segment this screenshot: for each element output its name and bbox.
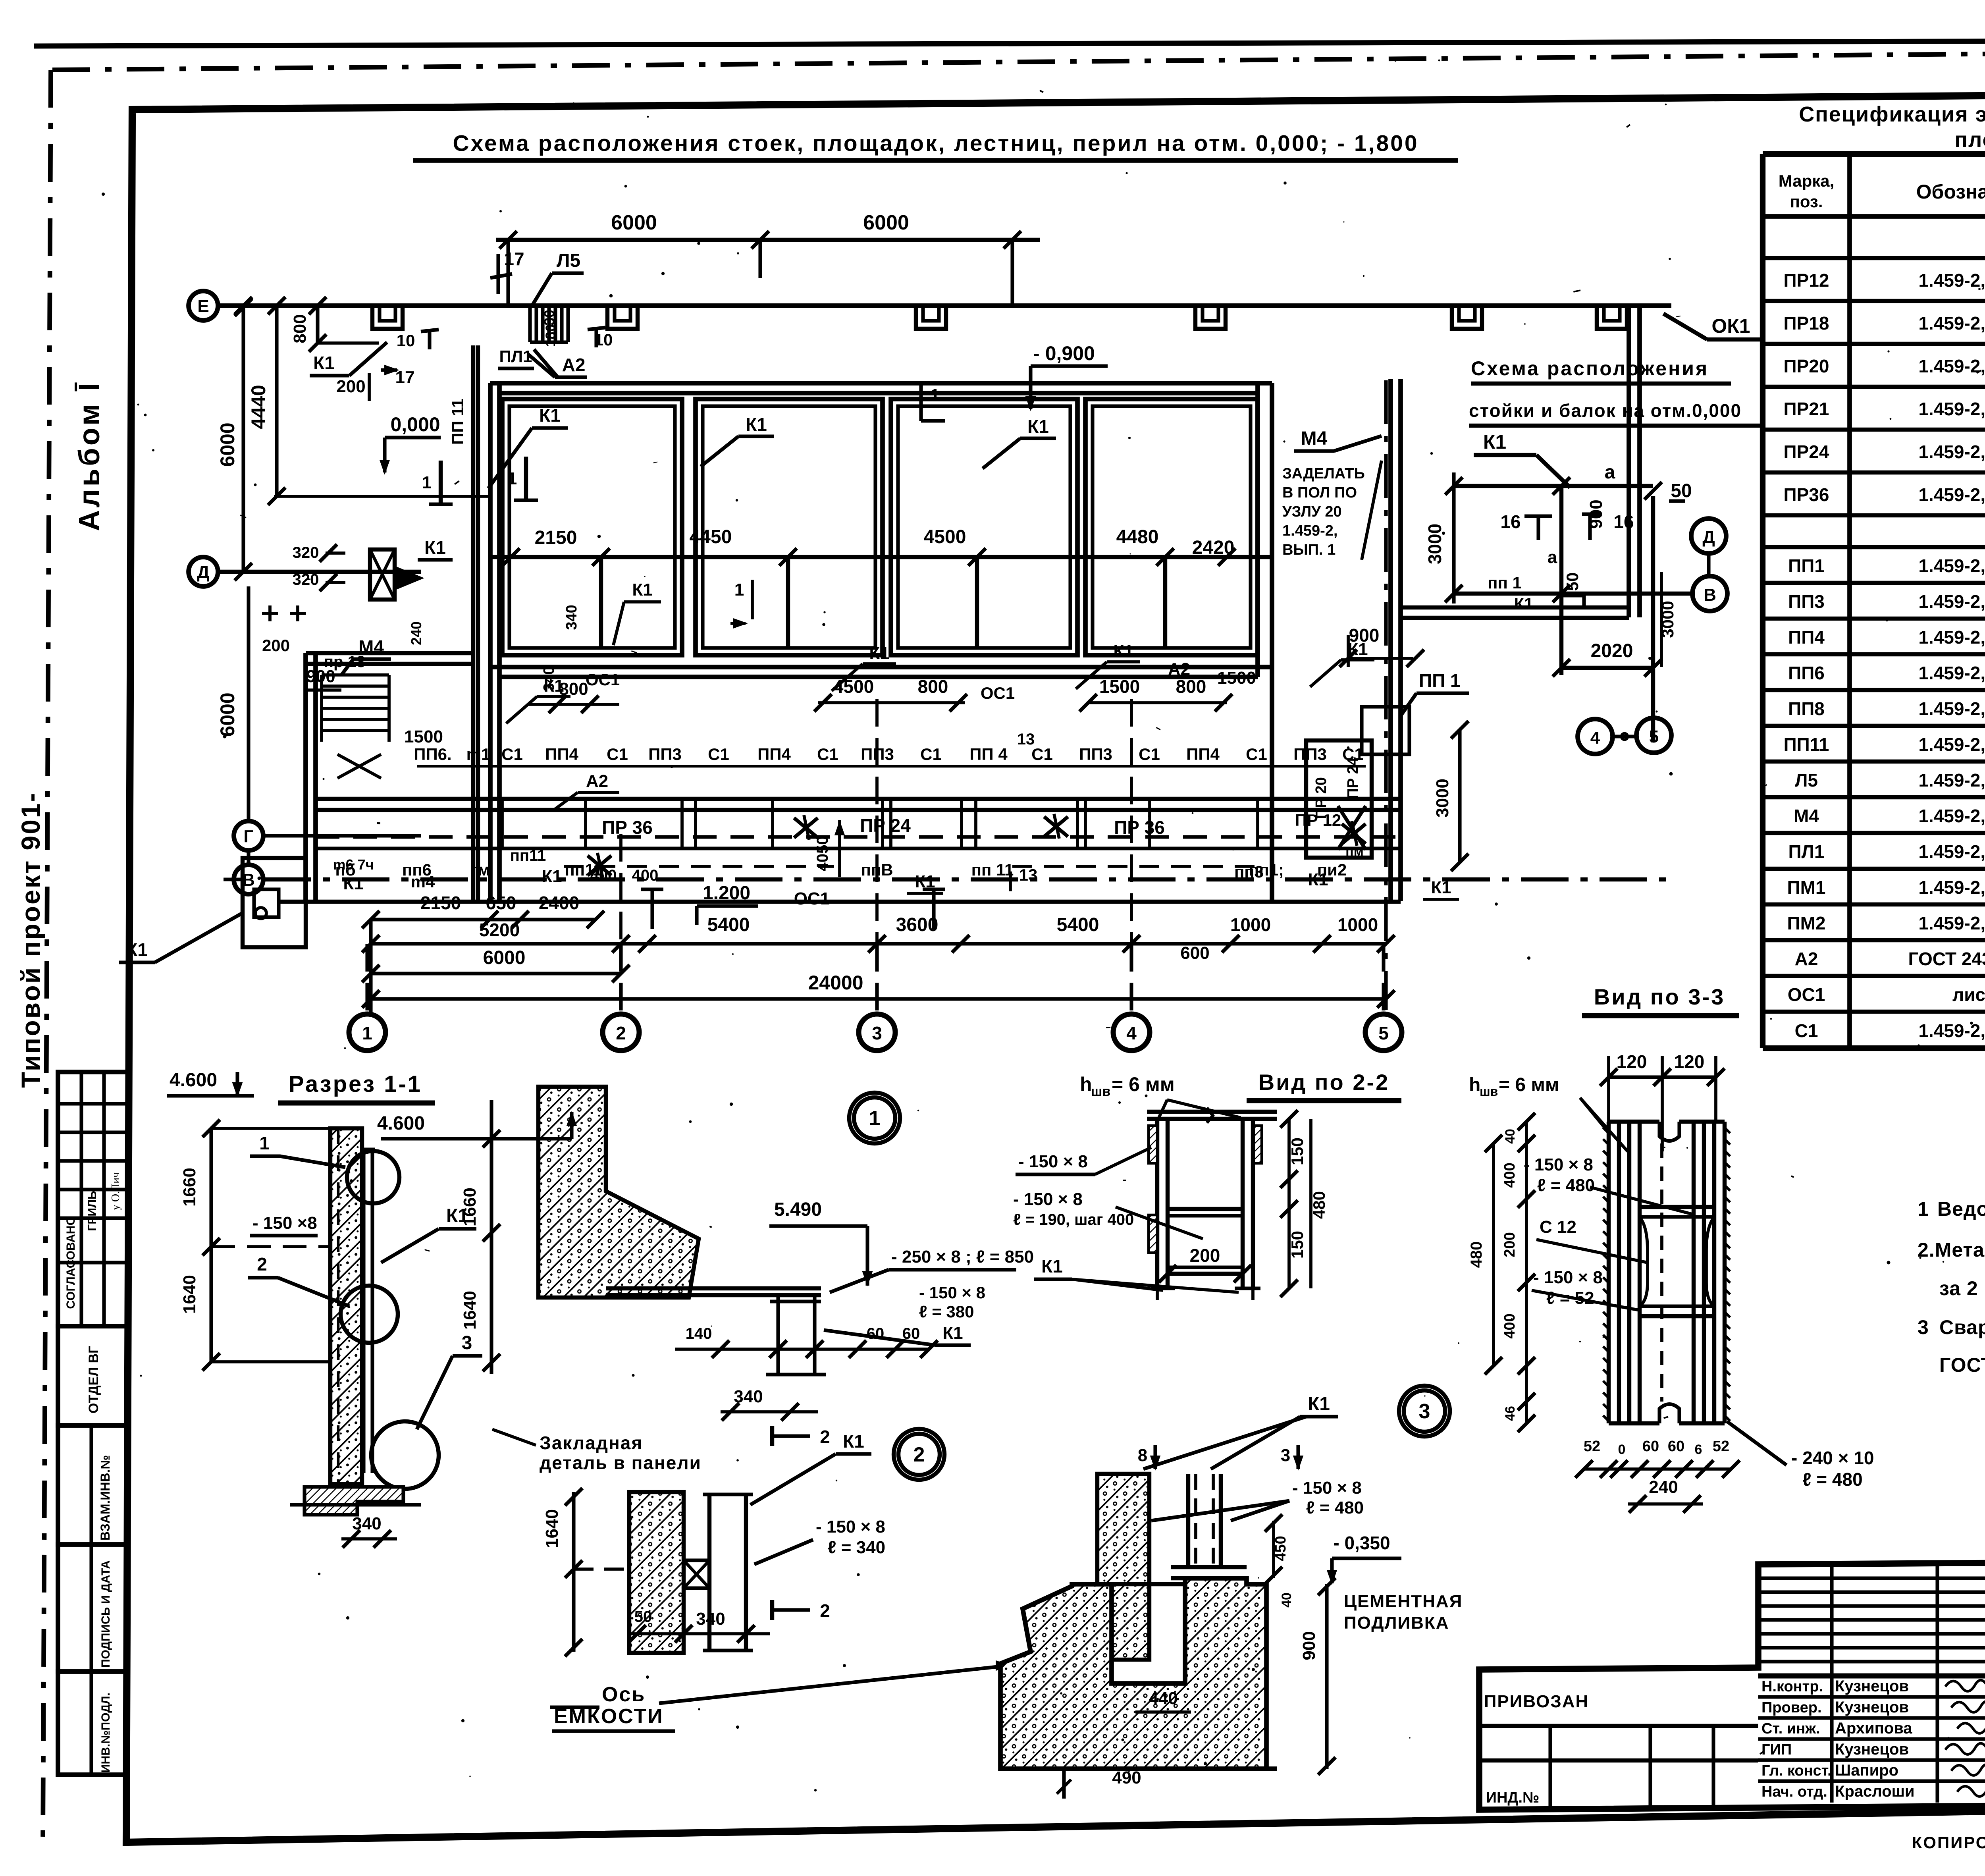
svg-text:ПОДПИСЬ И ДАТА: ПОДПИСЬ И ДАТА xyxy=(99,1560,112,1668)
svg-text:1.459-2, вып.2: 1.459-2, вып.2 xyxy=(1918,627,1985,648)
svg-text:ПП3: ПП3 xyxy=(1788,591,1825,612)
svg-text:ПП 11: ПП 11 xyxy=(448,399,467,445)
svg-text:1500: 1500 xyxy=(1217,668,1256,688)
svg-text:Схема расположения стоек, пл: Схема расположения стоек, площадок, лест… xyxy=(453,131,1418,156)
svg-text:40: 40 xyxy=(1279,1593,1294,1608)
svg-text:240: 240 xyxy=(408,621,424,645)
svg-text:480: 480 xyxy=(1310,1191,1328,1219)
svg-text:Сварку производить электр: Сварку производить электродами Э - 42 xyxy=(1939,1316,1985,1338)
svg-text:16: 16 xyxy=(1500,511,1521,532)
svg-text:120: 120 xyxy=(1617,1051,1647,1072)
svg-text:К1: К1 xyxy=(1308,870,1328,889)
svg-text:4500: 4500 xyxy=(833,676,874,697)
svg-text:ПЛ1: ПЛ1 xyxy=(1788,841,1825,862)
svg-text:ГОСТ 9467 - 75 , высота ш: ГОСТ 9467 - 75 , высота шва 6 мм. xyxy=(1939,1354,1985,1376)
svg-text:1000: 1000 xyxy=(1337,914,1378,935)
svg-text:2: 2 xyxy=(257,1254,267,1274)
svg-text:50: 50 xyxy=(634,1608,652,1625)
svg-text:ОК1: ОК1 xyxy=(1711,315,1750,337)
svg-text:ПП11: ПП11 xyxy=(1784,734,1829,755)
svg-text:1.459-2, вып.2: 1.459-2, вып.2 xyxy=(1918,806,1985,826)
svg-text:3: 3 xyxy=(1281,1446,1290,1465)
svg-text:4: 4 xyxy=(1126,1023,1137,1043)
svg-text:С 12: С 12 xyxy=(1540,1217,1576,1237)
svg-text:2400: 2400 xyxy=(539,893,579,913)
svg-text:Краслоши: Краслоши xyxy=(1835,1783,1915,1800)
svg-text:- 0,350: - 0,350 xyxy=(1333,1533,1390,1553)
svg-text:ОС1: ОС1 xyxy=(794,889,830,908)
svg-text:- 150 × 8: - 150 × 8 xyxy=(919,1283,985,1302)
svg-text:8: 8 xyxy=(1138,1446,1147,1465)
svg-text:5400: 5400 xyxy=(707,914,750,935)
svg-text:1.459-2, вып.1: 1.459-2, вып.1 xyxy=(1918,442,1985,462)
svg-text:50: 50 xyxy=(1671,480,1692,501)
svg-text:ПР 36: ПР 36 xyxy=(602,817,653,838)
svg-text:пп 1: пп 1 xyxy=(1488,573,1522,592)
svg-text:Л5: Л5 xyxy=(1795,770,1818,791)
svg-text:ПР36: ПР36 xyxy=(1784,484,1829,505)
svg-text:- 150 × 8: - 150 × 8 xyxy=(1018,1152,1088,1171)
svg-text:ПП6.: ПП6. xyxy=(414,745,451,764)
svg-text:h: h xyxy=(1080,1073,1092,1095)
svg-text:лист 7: лист 7 xyxy=(1952,984,1985,1005)
svg-text:2: 2 xyxy=(616,1023,626,1043)
svg-text:1: 1 xyxy=(362,1023,372,1043)
svg-text:Схема расположения: Схема расположения xyxy=(1471,357,1709,380)
svg-text:Альбом Ī: Альбом Ī xyxy=(73,380,106,531)
svg-text:0,000: 0,000 xyxy=(390,413,440,436)
svg-text:52: 52 xyxy=(1584,1438,1600,1455)
svg-text:1.459-2, вып.2: 1.459-2, вып.2 xyxy=(1918,555,1985,576)
svg-text:1: 1 xyxy=(734,580,744,600)
svg-text:800: 800 xyxy=(918,676,948,697)
svg-text:пм: пм xyxy=(1345,844,1364,859)
svg-text:17: 17 xyxy=(395,368,415,387)
svg-text:К1: К1 xyxy=(539,405,561,426)
svg-text:1.459-2, вып.2: 1.459-2, вып.2 xyxy=(1918,734,1985,755)
svg-text:a: a xyxy=(1605,462,1615,483)
svg-text:3: 3 xyxy=(1918,1316,1929,1338)
svg-text:2150: 2150 xyxy=(420,893,461,913)
svg-text:4: 4 xyxy=(1590,728,1600,748)
svg-text:400: 400 xyxy=(590,867,617,884)
svg-text:ПР20: ПР20 xyxy=(1784,356,1829,376)
svg-text:ОС1: ОС1 xyxy=(1788,984,1825,1005)
svg-text:Разрез 1-1: Разрез 1-1 xyxy=(289,1071,422,1097)
svg-text:ПМ2: ПМ2 xyxy=(1787,913,1826,933)
svg-text:К1: К1 xyxy=(424,537,446,558)
svg-text:- 150 × 8: - 150 × 8 xyxy=(816,1517,885,1537)
svg-text:К1: К1 xyxy=(343,874,363,893)
svg-text:= 6 мм: = 6 мм xyxy=(1499,1074,1559,1095)
svg-text:340: 340 xyxy=(352,1514,381,1533)
svg-text:С1: С1 xyxy=(708,745,729,764)
svg-text:4.600: 4.600 xyxy=(377,1113,425,1134)
svg-text:1.459-2, вып.1: 1.459-2, вып.1 xyxy=(1918,1020,1985,1041)
svg-text:5200: 5200 xyxy=(479,920,520,940)
svg-text:ПР 24: ПР 24 xyxy=(1345,757,1361,799)
svg-text:ПП3: ПП3 xyxy=(1293,745,1327,764)
svg-text:200: 200 xyxy=(1501,1232,1518,1257)
svg-text:гм: гм xyxy=(471,860,490,879)
svg-text:5: 5 xyxy=(1649,727,1659,746)
svg-text:ПП4: ПП4 xyxy=(1186,745,1220,764)
svg-text:140: 140 xyxy=(686,1325,712,1342)
svg-text:2150: 2150 xyxy=(535,527,577,548)
svg-text:ПР24: ПР24 xyxy=(1784,442,1829,462)
svg-text:- 150 × 8: - 150 × 8 xyxy=(1292,1478,1362,1498)
svg-text:60: 60 xyxy=(1642,1438,1659,1455)
svg-text:200: 200 xyxy=(336,377,365,396)
svg-text:К1: К1 xyxy=(1113,642,1133,661)
svg-text:1.459-2, вып.2: 1.459-2, вып.2 xyxy=(1918,877,1985,898)
svg-text:150: 150 xyxy=(1288,1231,1307,1259)
svg-text:ПП3: ПП3 xyxy=(648,745,682,764)
svg-text:1.459-2, вып.2: 1.459-2, вып.2 xyxy=(1918,698,1985,719)
svg-text:К1: К1 xyxy=(1431,878,1451,897)
svg-text:В: В xyxy=(1704,585,1716,605)
svg-text:К1: К1 xyxy=(1027,416,1049,437)
svg-text:6000: 6000 xyxy=(483,947,526,968)
svg-text:1.459-2,: 1.459-2, xyxy=(1282,523,1337,539)
svg-text:Обозначение: Обозначение xyxy=(1916,181,1985,203)
svg-text:4450: 4450 xyxy=(690,526,732,548)
svg-text:Кузнецов: Кузнецов xyxy=(1835,1699,1909,1716)
svg-text:у О.Лич: у О.Лич xyxy=(110,1172,122,1210)
svg-text:ПР 36: ПР 36 xyxy=(1114,817,1165,838)
svg-text:1.459-2, вып.2: 1.459-2, вып.2 xyxy=(1918,841,1985,862)
svg-text:В ПОЛ ПО: В ПОЛ ПО xyxy=(1282,484,1357,501)
svg-text:Вид по 2-2: Вид по 2-2 xyxy=(1258,1070,1390,1095)
svg-text:900: 900 xyxy=(1299,1631,1319,1660)
svg-text:ПП 4: ПП 4 xyxy=(969,745,1008,764)
svg-text:С1: С1 xyxy=(817,745,838,764)
svg-text:- 250 × 8 ; ℓ = 850: - 250 × 8 ; ℓ = 850 xyxy=(891,1247,1034,1267)
svg-text:Вид по 3-3: Вид по 3-3 xyxy=(1594,984,1725,1009)
svg-text:1500: 1500 xyxy=(404,727,443,746)
svg-text:60: 60 xyxy=(902,1325,920,1342)
svg-text:ПЛ1: ПЛ1 xyxy=(499,347,532,366)
svg-text:1660: 1660 xyxy=(460,1188,480,1226)
svg-text:200: 200 xyxy=(262,636,290,655)
svg-text:ПР21: ПР21 xyxy=(1784,399,1829,419)
svg-text:К1: К1 xyxy=(869,644,889,663)
svg-text:Типовой проект 901-: Типовой проект 901- xyxy=(16,792,45,1088)
svg-text:3000: 3000 xyxy=(1433,779,1452,817)
svg-text:ЗАДЕЛАТЬ: ЗАДЕЛАТЬ xyxy=(1282,465,1365,482)
svg-text:С1: С1 xyxy=(1795,1020,1818,1041)
svg-text:17: 17 xyxy=(504,249,524,269)
svg-text:3: 3 xyxy=(462,1332,472,1353)
svg-text:3600: 3600 xyxy=(896,914,939,935)
svg-text:1640: 1640 xyxy=(180,1275,199,1314)
svg-text:52: 52 xyxy=(1713,1438,1729,1455)
svg-text:М4: М4 xyxy=(1794,806,1819,826)
svg-text:Марка,: Марка, xyxy=(1779,172,1835,190)
svg-text:2020: 2020 xyxy=(1591,640,1633,661)
svg-text:поз.: поз. xyxy=(1790,192,1823,211)
svg-text:440: 440 xyxy=(1149,1689,1178,1708)
svg-text:600: 600 xyxy=(1180,943,1209,963)
svg-text:30: 30 xyxy=(541,310,557,326)
svg-text:ИНВ.№ПОДЛ.: ИНВ.№ПОДЛ. xyxy=(99,1693,112,1773)
svg-text:Е: Е xyxy=(197,297,209,316)
svg-text:Н.контр.: Н.контр. xyxy=(1761,1678,1823,1695)
svg-text:1500: 1500 xyxy=(1099,676,1140,697)
svg-text:h: h xyxy=(1469,1074,1480,1095)
svg-text:за 2 раза ( ГОСТ 695 -77): за 2 раза ( ГОСТ 695 -77) по огрунтовке. xyxy=(1939,1277,1985,1300)
svg-text:400: 400 xyxy=(1501,1163,1518,1188)
svg-text:ПРИВОЗАН: ПРИВОЗАН xyxy=(1484,1692,1589,1711)
svg-text:- 0,900: - 0,900 xyxy=(1033,342,1095,364)
svg-text:1000: 1000 xyxy=(1230,914,1271,935)
svg-text:пп11: пп11 xyxy=(510,847,546,864)
svg-text:Кузнецов: Кузнецов xyxy=(1835,1677,1909,1695)
svg-text:480: 480 xyxy=(1468,1242,1485,1268)
svg-text:ВЫП. 1: ВЫП. 1 xyxy=(1282,542,1336,558)
svg-text:800: 800 xyxy=(1176,676,1206,697)
svg-text:ПП3: ПП3 xyxy=(1079,745,1112,764)
svg-text:А2: А2 xyxy=(562,355,586,375)
svg-text:Шапиро: Шапиро xyxy=(1835,1762,1898,1779)
svg-text:ПР 20: ПР 20 xyxy=(1313,777,1330,819)
svg-text:4480: 4480 xyxy=(1116,526,1159,548)
svg-text:М4: М4 xyxy=(1301,428,1328,449)
svg-text:180: 180 xyxy=(543,324,558,347)
svg-text:Ст. инж.: Ст. инж. xyxy=(1761,1720,1820,1737)
svg-text:ПМ1: ПМ1 xyxy=(1787,877,1826,898)
svg-text:ℓ = 340: ℓ = 340 xyxy=(828,1538,885,1557)
svg-text:КОПИРОВАЛ ЕРЕМЕНКО: КОПИРОВАЛ ЕРЕМЕНКО xyxy=(1912,1833,1985,1852)
svg-text:ГРИЛЬ: ГРИЛЬ xyxy=(86,1191,99,1231)
svg-text:СОГЛАСОВАНО: СОГЛАСОВАНО xyxy=(64,1216,77,1309)
svg-text:ПП 1: ПП 1 xyxy=(1419,670,1461,691)
svg-text:А2: А2 xyxy=(1795,949,1818,969)
svg-text:ЦЕМЕНТНАЯ: ЦЕМЕНТНАЯ xyxy=(1344,1592,1463,1611)
svg-text:340: 340 xyxy=(541,666,557,691)
svg-text:ПР18: ПР18 xyxy=(1784,313,1829,334)
svg-text:ПП8: ПП8 xyxy=(1788,698,1825,719)
svg-text:2: 2 xyxy=(913,1443,925,1466)
svg-text:шв: шв xyxy=(1091,1084,1110,1099)
svg-text:стойки и балок на отм.0,00: стойки и балок на отм.0,000 xyxy=(1469,400,1742,421)
svg-text:ВЗАМ.ИНВ.№: ВЗАМ.ИНВ.№ xyxy=(98,1455,112,1541)
svg-text:К1: К1 xyxy=(942,1323,963,1343)
svg-text:6000: 6000 xyxy=(216,692,239,737)
svg-text:ГОСТ 24379.1-80: ГОСТ 24379.1-80 xyxy=(1908,949,1985,969)
svg-text:13: 13 xyxy=(1017,731,1035,748)
svg-text:ПР 24: ПР 24 xyxy=(860,815,911,836)
svg-text:С1: С1 xyxy=(501,745,523,764)
svg-text:1: 1 xyxy=(507,469,517,488)
svg-text:С1: С1 xyxy=(920,745,942,764)
svg-text:С1: С1 xyxy=(1139,745,1160,764)
svg-text:4.600: 4.600 xyxy=(170,1070,217,1091)
svg-text:Архипова: Архипова xyxy=(1835,1720,1912,1737)
svg-text:4050: 4050 xyxy=(814,836,831,871)
svg-text:ПОДЛИВКА: ПОДЛИВКА xyxy=(1344,1613,1449,1633)
svg-text:К1: К1 xyxy=(746,414,767,435)
svg-text:Д: Д xyxy=(1702,528,1715,547)
svg-text:1640: 1640 xyxy=(460,1291,480,1330)
svg-text:2.Металлоконструкции покраси: 2.Металлоконструкции покрасить масляной … xyxy=(1918,1239,1985,1261)
svg-text:ПП6: ПП6 xyxy=(1788,663,1825,683)
svg-text:ℓ = 480: ℓ = 480 xyxy=(1537,1176,1595,1195)
svg-text:К1: К1 xyxy=(126,939,148,960)
svg-text:С1: С1 xyxy=(607,745,628,764)
svg-text:Ось: Ось xyxy=(602,1683,646,1706)
svg-text:1.459-2, вып.2: 1.459-2, вып.2 xyxy=(1918,770,1985,791)
svg-text:пп 11: пп 11 xyxy=(971,860,1014,879)
svg-text:m1: m1 xyxy=(466,745,491,764)
svg-text:А2: А2 xyxy=(1168,659,1190,679)
svg-text:ОС1: ОС1 xyxy=(981,684,1015,702)
svg-text:ℓ = 190, шаг 400: ℓ = 190, шаг 400 xyxy=(1013,1211,1134,1228)
svg-text:К1: К1 xyxy=(542,867,562,886)
svg-text:- 150 × 8: - 150 × 8 xyxy=(1533,1268,1603,1287)
svg-text:1.459-2, вып.1: 1.459-2, вып.1 xyxy=(1918,356,1985,376)
svg-text:Закладная: Закладная xyxy=(540,1433,643,1453)
svg-text:ℓ = 480: ℓ = 480 xyxy=(1802,1469,1863,1490)
svg-text:120: 120 xyxy=(1674,1051,1705,1072)
svg-text:УЗЛУ 20: УЗЛУ 20 xyxy=(1282,503,1342,520)
svg-text:ОС1: ОС1 xyxy=(586,670,620,689)
svg-text:пп3: пп3 xyxy=(1234,862,1264,881)
svg-text:1.459-2, вып.1: 1.459-2, вып.1 xyxy=(1918,484,1985,505)
svg-text:3: 3 xyxy=(1419,1400,1430,1423)
svg-text:900: 900 xyxy=(1586,499,1606,528)
svg-text:4440: 4440 xyxy=(247,385,270,429)
svg-text:6: 6 xyxy=(1695,1442,1702,1457)
svg-text:900: 900 xyxy=(1349,625,1380,646)
svg-text:= 6 мм: = 6 мм xyxy=(1112,1073,1175,1095)
svg-text:Г: Г xyxy=(244,827,254,846)
svg-text:Ведомость элементов см. на: Ведомость элементов см. на листе КМ-7. xyxy=(1937,1198,1985,1220)
svg-text:5400: 5400 xyxy=(1057,914,1099,935)
svg-text:60: 60 xyxy=(867,1325,885,1342)
svg-text:2: 2 xyxy=(820,1427,830,1447)
svg-text:1: 1 xyxy=(930,386,940,405)
svg-text:Л5: Л5 xyxy=(557,250,580,271)
svg-text:m4: m4 xyxy=(411,872,435,891)
svg-text:- 240 × 10: - 240 × 10 xyxy=(1791,1448,1874,1468)
svg-text:1.459-2, вып.1: 1.459-2, вып.1 xyxy=(1918,313,1985,334)
svg-text:площадок, лестниц , перил.: площадок, лестниц , перил. xyxy=(1954,128,1985,152)
svg-text:ПП4: ПП4 xyxy=(757,745,791,764)
svg-text:400: 400 xyxy=(1501,1313,1518,1338)
svg-text:ℓ = 380: ℓ = 380 xyxy=(919,1302,974,1321)
svg-text:Гл. конст.: Гл. конст. xyxy=(1761,1762,1832,1779)
svg-text:10: 10 xyxy=(397,331,415,350)
svg-text:А2: А2 xyxy=(586,771,608,791)
svg-text:4500: 4500 xyxy=(924,526,966,548)
svg-text:ПП4: ПП4 xyxy=(1788,627,1825,648)
svg-text:50: 50 xyxy=(1563,573,1582,591)
svg-text:1.459-2, вып.1: 1.459-2, вып.1 xyxy=(1918,270,1985,291)
svg-text:К1: К1 xyxy=(632,580,652,600)
svg-text:деталь в панели: деталь в панели xyxy=(540,1452,701,1473)
svg-text:400: 400 xyxy=(632,867,659,884)
svg-text:5: 5 xyxy=(1378,1023,1389,1043)
svg-text:Нач. отд.: Нач. отд. xyxy=(1761,1783,1827,1800)
svg-text:Спецификация элементов к сх: Спецификация элементов к схеме расположе… xyxy=(1799,102,1985,126)
svg-text:ГИП: ГИП xyxy=(1761,1741,1792,1758)
svg-text:ПП4: ПП4 xyxy=(545,745,578,764)
svg-text:С1: С1 xyxy=(1246,745,1267,764)
svg-text:6000: 6000 xyxy=(611,211,657,234)
svg-text:150: 150 xyxy=(1288,1138,1307,1165)
svg-text:К1: К1 xyxy=(313,353,335,373)
svg-text:3: 3 xyxy=(872,1023,882,1043)
svg-text:ПП1: ПП1 xyxy=(1788,555,1825,576)
svg-text:К1: К1 xyxy=(1041,1256,1063,1276)
svg-text:Д: Д xyxy=(197,563,209,582)
svg-text:шв: шв xyxy=(1480,1084,1498,1099)
svg-text:ПР12: ПР12 xyxy=(1784,270,1829,291)
svg-text:240: 240 xyxy=(1649,1477,1678,1497)
svg-text:1.459-2, вып.2: 1.459-2, вып.2 xyxy=(1918,591,1985,612)
svg-text:К1: К1 xyxy=(843,1431,864,1452)
svg-text:340: 340 xyxy=(563,605,580,630)
svg-text:1: 1 xyxy=(422,473,432,492)
svg-text:ℓ = 480: ℓ = 480 xyxy=(1306,1498,1364,1517)
svg-text:1: 1 xyxy=(1918,1198,1929,1220)
svg-text:40: 40 xyxy=(1503,1129,1518,1144)
svg-text:650: 650 xyxy=(486,893,516,913)
svg-text:1.200: 1.200 xyxy=(703,883,750,904)
svg-text:пр 18: пр 18 xyxy=(324,653,365,671)
svg-text:К1: К1 xyxy=(1308,1394,1330,1415)
svg-text:1660: 1660 xyxy=(180,1168,199,1207)
svg-text:2: 2 xyxy=(820,1600,830,1621)
svg-text:320: 320 xyxy=(293,544,319,561)
svg-text:46: 46 xyxy=(1503,1406,1518,1421)
svg-text:1: 1 xyxy=(259,1133,270,1153)
svg-text:К1: К1 xyxy=(1514,594,1534,613)
svg-text:- 150 × 8: - 150 × 8 xyxy=(1524,1155,1593,1174)
svg-text:320: 320 xyxy=(293,571,319,588)
svg-text:- 150 × 8: - 150 × 8 xyxy=(1013,1190,1083,1209)
svg-text:13: 13 xyxy=(1019,866,1038,884)
svg-text:Кузнецов: Кузнецов xyxy=(1835,1741,1909,1758)
svg-text:Провер.: Провер. xyxy=(1761,1699,1822,1716)
svg-text:0: 0 xyxy=(1618,1442,1626,1457)
svg-text:1640: 1640 xyxy=(542,1509,562,1548)
svg-text:1: 1 xyxy=(869,1107,881,1130)
svg-text:3000: 3000 xyxy=(1424,524,1445,564)
svg-text:1.459-2, вып.2: 1.459-2, вып.2 xyxy=(1918,913,1985,933)
svg-text:- 150 ×8: - 150 ×8 xyxy=(252,1213,317,1233)
svg-text:24000: 24000 xyxy=(808,972,863,994)
svg-text:a: a xyxy=(1548,548,1557,567)
svg-text:6000: 6000 xyxy=(863,211,909,234)
svg-text:К1: К1 xyxy=(1483,431,1506,453)
svg-text:1.459-2, вып.2: 1.459-2, вып.2 xyxy=(1918,663,1985,683)
svg-text:340: 340 xyxy=(696,1609,725,1629)
svg-text:1.459-2, вып.1: 1.459-2, вып.1 xyxy=(1918,399,1985,419)
svg-text:6000: 6000 xyxy=(216,422,239,467)
svg-text:ИНД.№: ИНД.№ xyxy=(1486,1789,1540,1806)
svg-text:800: 800 xyxy=(290,314,310,343)
svg-text:200: 200 xyxy=(1190,1245,1220,1266)
svg-text:ОТДЕЛ ВГ: ОТДЕЛ ВГ xyxy=(86,1346,101,1413)
svg-text:5.490: 5.490 xyxy=(774,1199,822,1220)
svg-text:60: 60 xyxy=(1668,1438,1684,1455)
